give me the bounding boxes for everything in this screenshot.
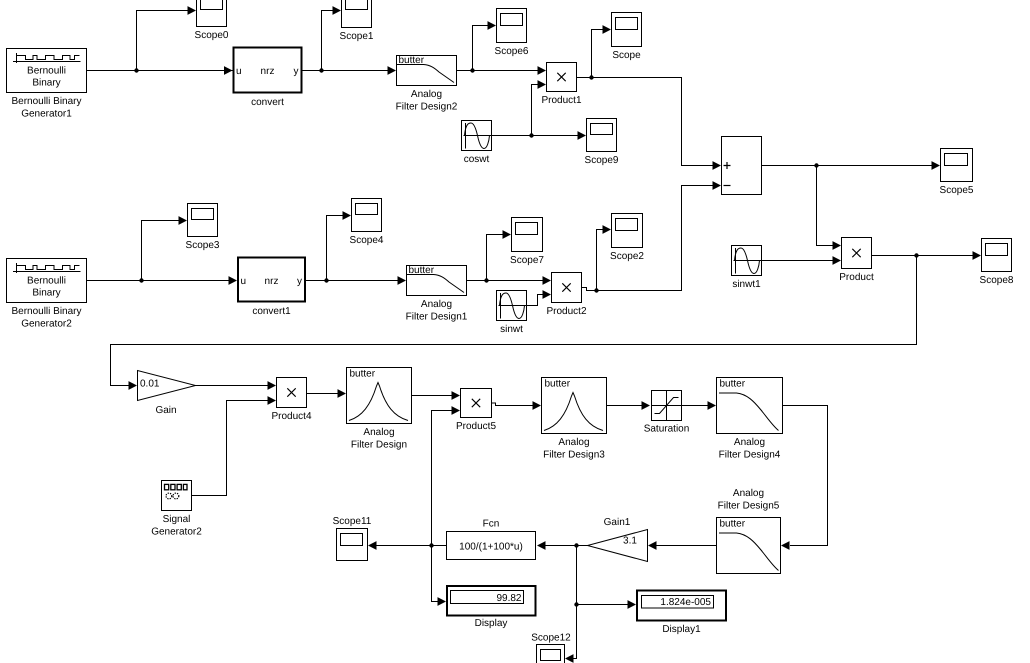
svg-text:Bernoulli: Bernoulli	[27, 276, 66, 287]
node branch to Scope2	[594, 288, 598, 292]
scope Scope8	[980, 239, 1014, 287]
block convert (u->nrz->y)	[234, 48, 302, 109]
svg-text:Scope0: Scope0	[195, 30, 229, 41]
node branch to Scope	[589, 75, 593, 79]
wire branch up to Scope1	[322, 6, 342, 70]
svg-text:Bernoulli: Bernoulli	[27, 66, 66, 77]
scope Scope6	[495, 9, 529, 58]
svg-text:Scope8: Scope8	[980, 275, 1014, 286]
svg-text:Scope5: Scope5	[940, 185, 974, 196]
svg-text:Product5: Product5	[456, 421, 496, 432]
svg-text:Scope2: Scope2	[610, 251, 644, 262]
svg-text:u: u	[241, 276, 247, 287]
wire branch up to Scope0	[137, 6, 197, 70]
svg-text:Analog: Analog	[421, 299, 452, 310]
block convert1 (u->nrz->y)	[238, 258, 305, 318]
svg-text:Filter Design4: Filter Design4	[719, 450, 781, 461]
svg-text:Scope6: Scope6	[495, 46, 529, 57]
svg-text:Product4: Product4	[271, 411, 311, 422]
svg-text:99.82: 99.82	[496, 593, 521, 604]
wire Generator1 output to convert input	[87, 66, 234, 75]
wire branch down to Display	[432, 546, 447, 606]
block Product4 (multiplier)	[271, 378, 311, 423]
wire Analog Filter Design output to Product5 input 1	[412, 391, 461, 400]
svg-text:Display: Display	[475, 618, 508, 629]
block Analog Filter Design (butter band-pass filter)	[347, 368, 412, 451]
scope Scope7	[510, 218, 544, 267]
source sinwt1 (sine wave)	[732, 246, 762, 291]
block Product (multiplier)	[839, 238, 874, 284]
source coswt (sine wave)	[462, 121, 492, 166]
svg-text:Generator2: Generator2	[151, 527, 202, 538]
wire branch up to Scope7	[487, 230, 512, 280]
wire sinwt output to Product2 input 2	[527, 290, 552, 305]
wire branch right to Display1	[577, 600, 637, 609]
wire branch up to Scope6	[473, 21, 497, 70]
wire convert output to Analog Filter Design2	[303, 66, 397, 75]
svg-text:Scope12: Scope12	[531, 633, 571, 644]
wire branch up to Scope3	[142, 216, 188, 280]
node branch to Scope6	[470, 68, 474, 72]
node feedback branch	[914, 253, 918, 257]
svg-text:butter: butter	[350, 369, 376, 380]
scope Scope11 (label above, input on right)	[333, 516, 372, 561]
wire Product output to Scope8	[872, 251, 982, 260]
svg-text:Filter Design2: Filter Design2	[396, 102, 458, 113]
source Signal Generator2	[151, 481, 202, 538]
wire Product1 output to Sum + input	[577, 78, 722, 170]
wire filter1 output to Product2 input 1	[467, 276, 552, 285]
block Fcn 100/(1+100*u)	[447, 519, 536, 560]
wire convert1 output to Analog Filter Design1	[306, 276, 407, 285]
svg-text:Scope: Scope	[612, 50, 641, 61]
scope Scope1	[340, 0, 374, 42]
wire branch up to Scope2	[597, 225, 612, 290]
svg-text:nrz: nrz	[265, 276, 279, 287]
source sinwt (sine wave)	[497, 291, 527, 336]
scope Scope2	[610, 214, 644, 263]
svg-text:y: y	[294, 66, 299, 77]
node Fcn output branch	[429, 543, 433, 547]
block Analog Filter Design3 (butter band-pass filter)	[542, 378, 607, 461]
block Analog Filter Design4 (butter low-pass filter)	[717, 378, 783, 461]
svg-text:Saturation: Saturation	[644, 424, 690, 435]
wire branch up to Product1 input 2	[532, 80, 547, 135]
wire Fcn output to Scope11	[368, 541, 447, 550]
block Gain1 (3.1)	[588, 517, 648, 562]
wire filter4 output right-down-left to Analog Filter Design5 input	[781, 406, 828, 550]
svg-text:Scope11: Scope11	[333, 516, 372, 527]
svg-text:Binary: Binary	[32, 78, 60, 89]
svg-text:Product2: Product2	[546, 306, 586, 317]
node branch to Display1	[574, 602, 578, 606]
block Analog Filter Design5 (butter low-pass filter)	[717, 488, 781, 574]
svg-text:Filter Design5: Filter Design5	[718, 501, 780, 512]
block Gain (0.01)	[138, 371, 196, 417]
svg-text:Filter Design1: Filter Design1	[406, 312, 468, 323]
svg-text:butter: butter	[545, 379, 571, 390]
node branch down to Product input 1	[814, 163, 818, 167]
wire filter5 output to Gain1 input	[648, 541, 717, 550]
svg-text:Generator2: Generator2	[21, 319, 72, 330]
scope Scope0	[195, 0, 229, 41]
wire Generator2 output to convert1 input	[87, 276, 238, 285]
block Analog Filter Design2 (butter low-pass filter)	[396, 55, 458, 113]
svg-text:Binary: Binary	[32, 288, 60, 299]
svg-text:Bernoulli Binary: Bernoulli Binary	[11, 96, 81, 107]
node branch to Scope3	[139, 278, 143, 282]
wire Signal Generator2 output to Product4 input 2	[192, 396, 277, 495]
wire Product4 output to Analog Filter Design	[307, 389, 347, 398]
svg-text:butter: butter	[720, 519, 746, 530]
wire Sum output to Scope5	[762, 161, 941, 170]
wire Saturation output to Analog Filter Design4	[682, 401, 717, 410]
scope Scope	[612, 13, 642, 62]
svg-text:100/(1+100*u): 100/(1+100*u)	[459, 542, 523, 553]
svg-text:3.1: 3.1	[623, 536, 637, 547]
svg-text:Gain1: Gain1	[604, 517, 631, 528]
svg-text:Analog: Analog	[733, 488, 764, 499]
source Bernoulli Binary Generator2	[7, 259, 87, 330]
svg-text:sinwt1: sinwt1	[732, 279, 761, 290]
svg-text:nrz: nrz	[261, 66, 275, 77]
node branch to Scope1	[319, 68, 323, 72]
scope Scope12 (label above, input on right, clipped at bottom)	[531, 633, 571, 663]
block Analog Filter Design1 (butter low-pass filter)	[406, 265, 468, 323]
svg-text:Filter Design: Filter Design	[351, 440, 407, 451]
wire branch down to Product input 1	[817, 166, 842, 250]
svg-text:Scope4: Scope4	[350, 235, 384, 246]
wire filter2 output to Product1 input 1	[457, 66, 547, 75]
block Display1 (1.824e-005)	[637, 591, 726, 636]
svg-text:convert1: convert1	[252, 306, 291, 317]
wire filter3 output to Saturation	[607, 401, 651, 410]
svg-text:Scope9: Scope9	[585, 155, 619, 166]
svg-text:coswt: coswt	[464, 154, 490, 165]
svg-text:Analog: Analog	[411, 89, 442, 100]
svg-text:sinwt: sinwt	[500, 324, 523, 335]
wire sinwt1 output to Product input 2	[762, 256, 842, 265]
svg-text:y: y	[297, 276, 302, 287]
wire branch up to Product5 input 2	[432, 406, 461, 545]
svg-text:Analog: Analog	[363, 427, 394, 438]
svg-text:Scope7: Scope7	[510, 255, 544, 266]
svg-text:convert: convert	[251, 97, 284, 108]
svg-text:Analog: Analog	[558, 437, 589, 448]
svg-text:Display1: Display1	[662, 624, 701, 635]
svg-text:Product: Product	[839, 272, 874, 283]
svg-text:0.01: 0.01	[140, 379, 160, 390]
scope Scope9	[585, 119, 619, 167]
wire Product2 output to Sum - input	[582, 181, 722, 290]
wire branch up to Scope	[592, 25, 612, 77]
wire branch up to Scope4	[327, 211, 352, 280]
block Product2 (multiplier)	[546, 273, 586, 318]
svg-text:u: u	[236, 66, 242, 77]
svg-text:Filter Design3: Filter Design3	[543, 450, 605, 461]
svg-text:1.824e-005: 1.824e-005	[660, 597, 711, 608]
wire branch down to Scope12	[565, 546, 577, 663]
svg-text:Scope1: Scope1	[340, 31, 374, 42]
block Product5 (multiplier)	[456, 389, 496, 433]
node branch down from Gain1 output	[574, 543, 578, 547]
block Product1 (multiplier)	[541, 63, 581, 107]
svg-text:Generator1: Generator1	[21, 109, 72, 120]
svg-text:Analog: Analog	[734, 437, 765, 448]
node branch to Scope4	[324, 278, 328, 282]
block Saturation	[644, 391, 690, 435]
wire coswt output to Scope9	[492, 131, 587, 140]
wire Gain output to Product4 input 1	[196, 381, 277, 390]
svg-text:Signal: Signal	[163, 514, 191, 525]
node branch to Scope7	[484, 278, 488, 282]
svg-text:Gain: Gain	[155, 405, 176, 416]
wire Product5 output to Analog Filter Design3	[492, 401, 542, 410]
node branch to Scope0	[134, 68, 138, 72]
scope Scope5	[940, 149, 974, 197]
wire feedback down-left to Gain input	[111, 256, 917, 390]
svg-text:butter: butter	[720, 379, 746, 390]
scope Scope4	[350, 199, 384, 247]
scope Scope3	[186, 204, 220, 252]
node branch to Product1 input 2	[529, 133, 533, 137]
svg-text:Scope3: Scope3	[186, 240, 220, 251]
svg-text:Product1: Product1	[541, 95, 581, 106]
svg-text:Bernoulli Binary: Bernoulli Binary	[11, 306, 81, 317]
block Display (99.82)	[447, 586, 536, 629]
wire Gain1 output to Fcn input	[537, 541, 588, 550]
svg-text:Fcn: Fcn	[483, 519, 500, 530]
source Bernoulli Binary Generator1	[7, 49, 87, 120]
block Sum (+/-)	[722, 137, 762, 195]
